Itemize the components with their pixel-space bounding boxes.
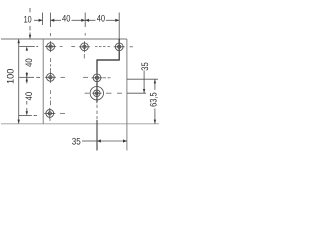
- svg-text:35: 35: [140, 62, 151, 71]
- svg-text:40: 40: [24, 58, 35, 67]
- svg-text:63,5: 63,5: [148, 92, 159, 107]
- svg-text:40: 40: [24, 92, 35, 101]
- svg-text:40: 40: [62, 13, 70, 24]
- svg-text:35: 35: [72, 137, 81, 148]
- svg-text:100: 100: [6, 69, 17, 84]
- svg-text:40: 40: [97, 13, 105, 24]
- svg-text:10: 10: [24, 15, 32, 26]
